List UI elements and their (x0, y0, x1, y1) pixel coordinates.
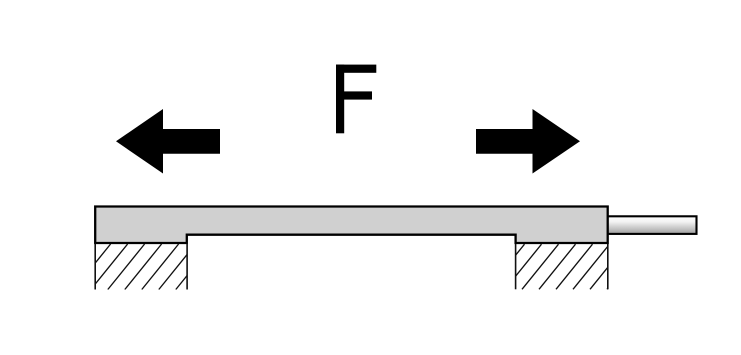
beam (stepped bar) (95, 207, 608, 244)
left support borders (95, 244, 187, 290)
right support hatch lines (488, 244, 644, 289)
right support borders (516, 244, 608, 289)
rod (pin extending right) (604, 216, 697, 234)
force arrow right (476, 109, 580, 174)
force label F (336, 65, 376, 134)
left support hatch lines (74, 244, 213, 290)
force arrow left (116, 109, 220, 174)
